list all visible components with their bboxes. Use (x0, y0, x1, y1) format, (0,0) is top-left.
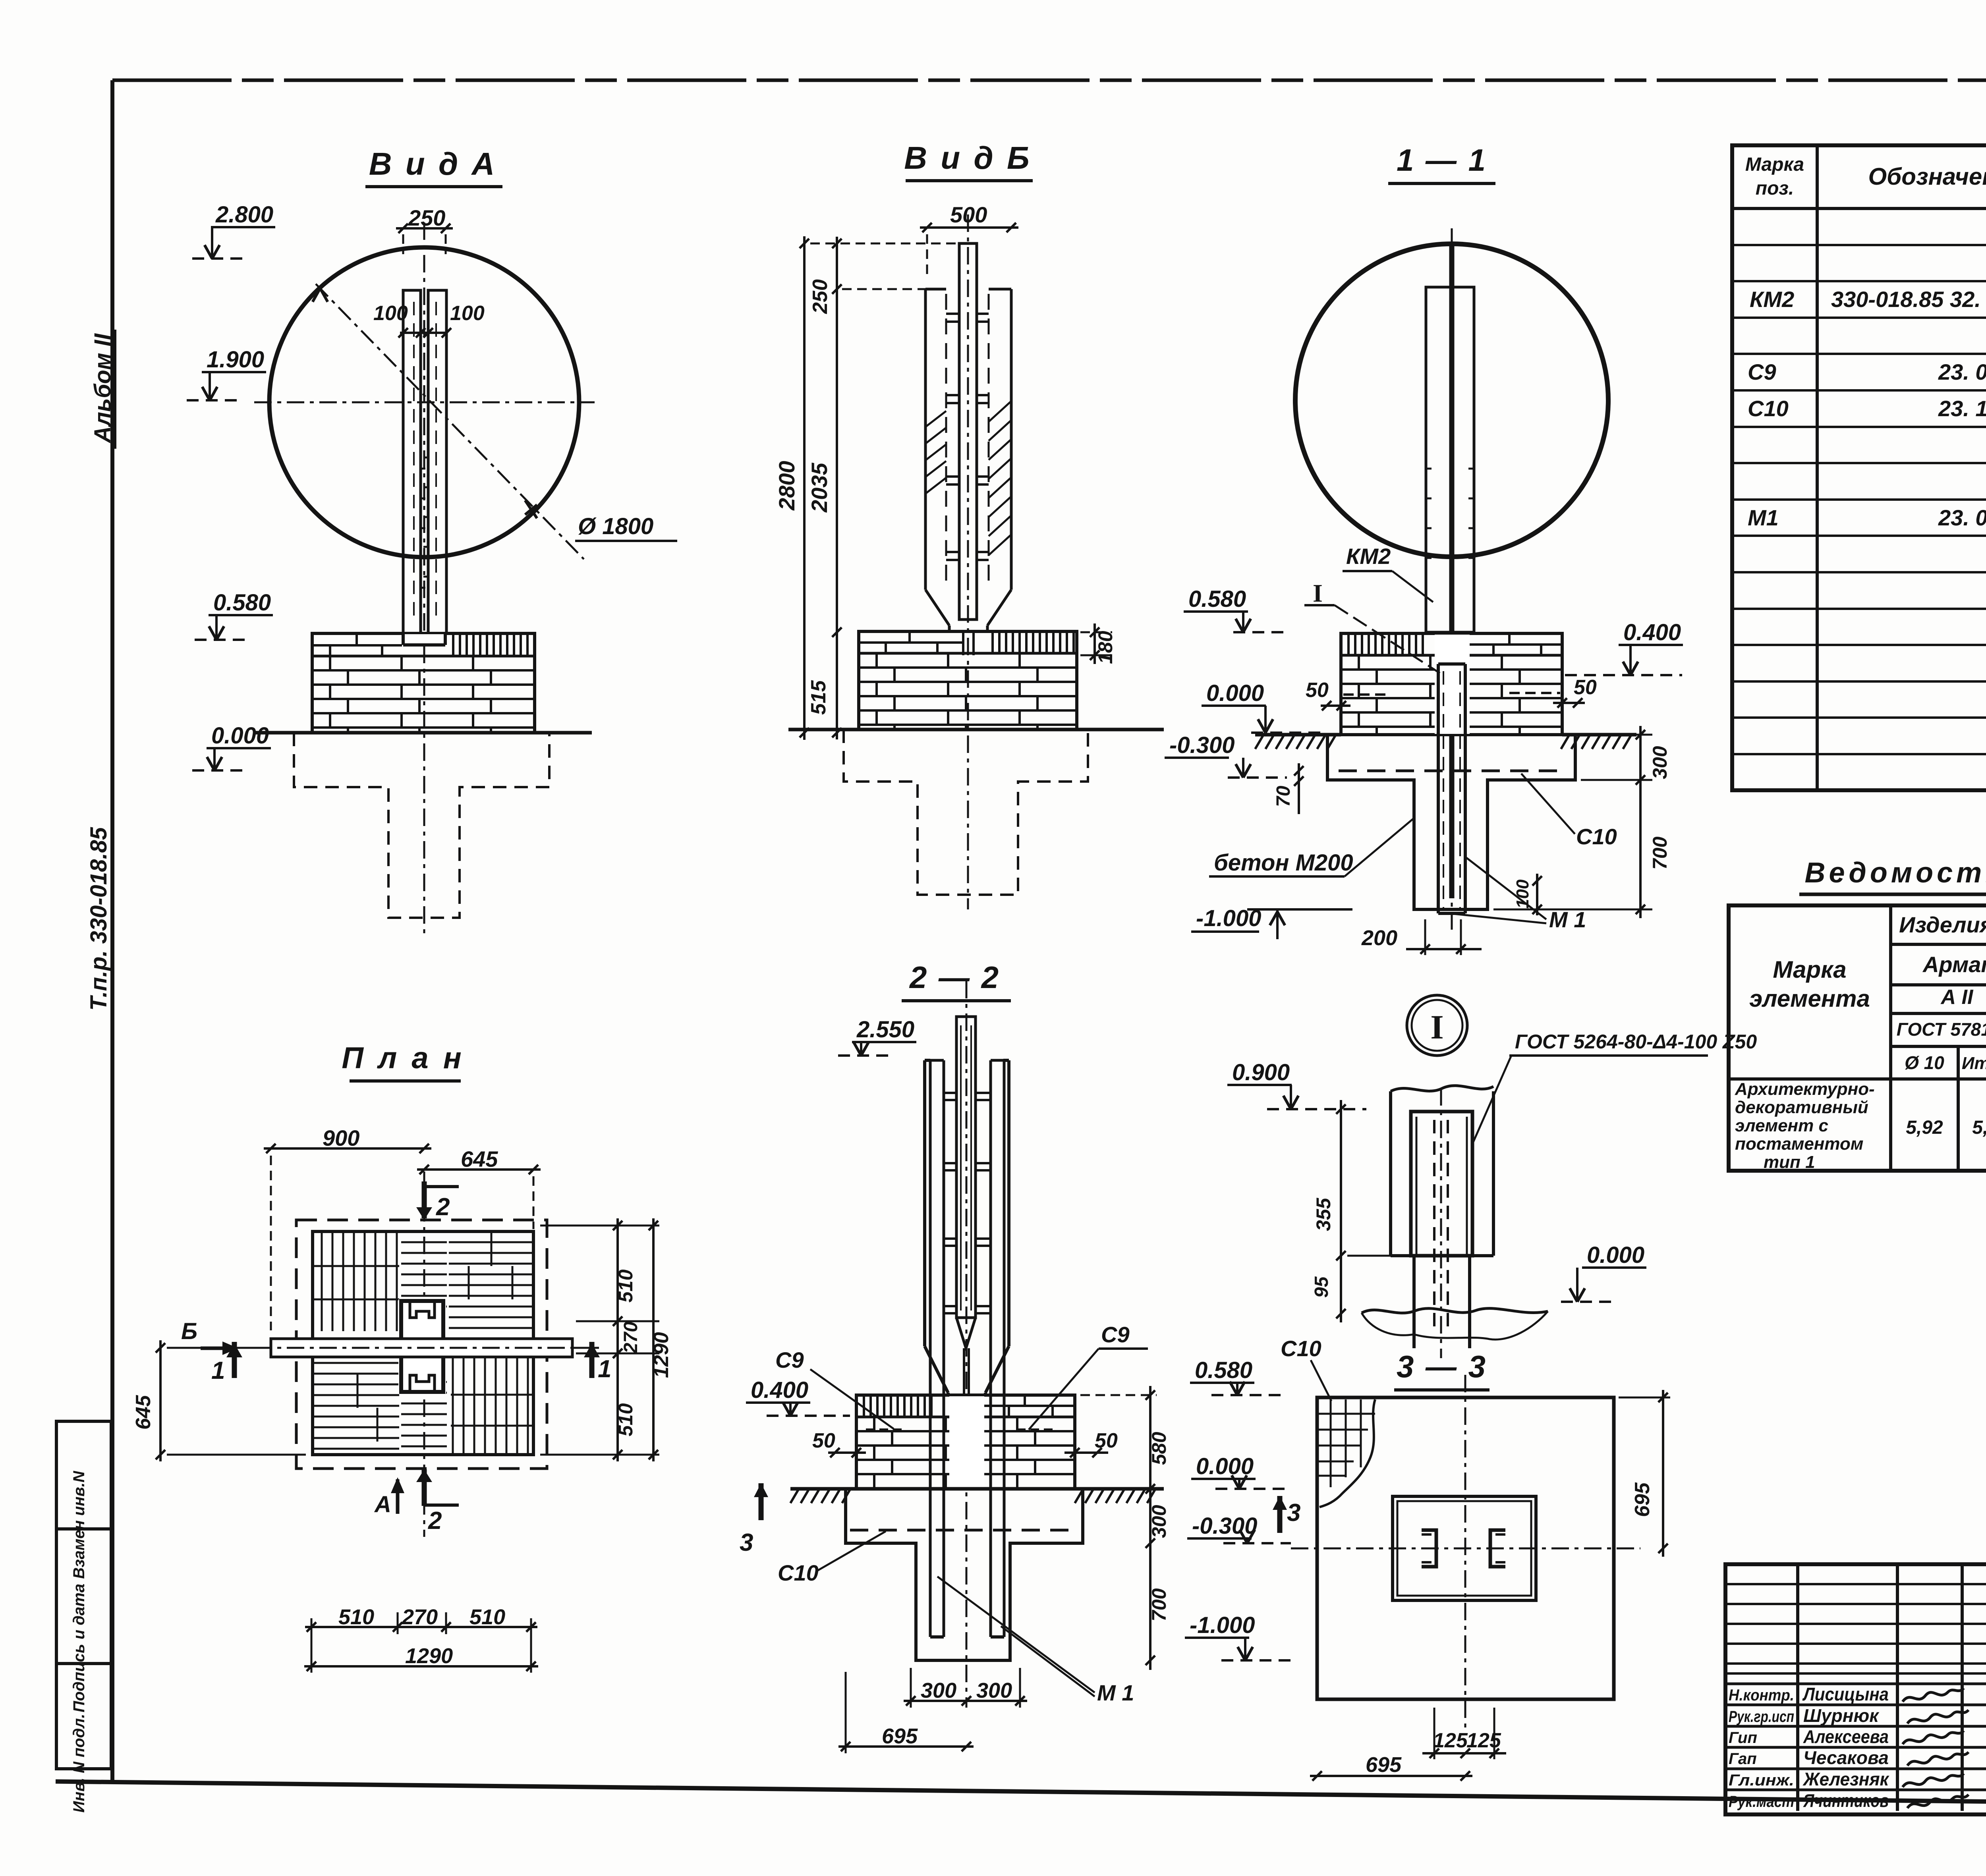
section 2-2 pedestal brickwork (856, 1395, 1075, 1489)
svg-text:580: 580 (1148, 1432, 1170, 1465)
view B pedestal brickwork (859, 631, 1077, 730)
node I ground break band (1362, 1309, 1548, 1340)
svg-text:50: 50 (1306, 679, 1329, 702)
svg-text:элемент с: элемент с (1735, 1116, 1828, 1135)
svg-text:645: 645 (132, 1395, 155, 1430)
svg-text:250: 250 (809, 279, 832, 314)
specification table grid (1732, 145, 1986, 790)
view B ground line (788, 728, 1164, 731)
svg-text:Итого: Итого (1962, 1054, 1986, 1073)
svg-text:П л а н: П л а н (342, 1041, 464, 1075)
steel table data row (1735, 1079, 1986, 1172)
plan brick hatch quadrants (314, 1233, 532, 1453)
section 2-2 section mark 3 right (1273, 1496, 1300, 1533)
svg-text:С9: С9 (775, 1347, 804, 1372)
svg-text:В и д А: В и д А (369, 146, 497, 181)
section 2-2 level 2.550 (838, 1017, 916, 1056)
svg-text:300: 300 (921, 1679, 956, 1702)
section 1-1 ground with hatch (1255, 735, 1636, 749)
left margin stamp boxes (56, 1421, 111, 1812)
spec row KM2 karkas (1750, 287, 1986, 312)
plan title (342, 1041, 464, 1081)
svg-text:2.550: 2.550 (856, 1017, 914, 1042)
svg-text:Б: Б (181, 1318, 197, 1344)
svg-text:декоративный: декоративный (1735, 1098, 1868, 1117)
svg-text:Архитектурно-: Архитектурно- (1735, 1079, 1875, 1099)
svg-text:бетон М200: бетон М200 (1214, 850, 1353, 876)
section 3-3 foundation square (1317, 1397, 1614, 1699)
svg-text:Чесакова: Чесакова (1803, 1747, 1889, 1768)
section 2-2 dim 695 (838, 1672, 974, 1753)
svg-text:695: 695 (1366, 1753, 1402, 1777)
section 3-3 inner plate double rect (1393, 1496, 1536, 1600)
section 1-1 dim 200 bottom (1361, 919, 1482, 955)
plan section mark 1 left (211, 1342, 242, 1384)
svg-text:0.000: 0.000 (1206, 680, 1264, 706)
section 2-2 level 0.400 left (746, 1377, 850, 1416)
plan bottom dims 510 270 510 1290 (304, 1605, 538, 1673)
svg-text:0.580: 0.580 (213, 590, 271, 616)
svg-text:Гип: Гип (1729, 1729, 1757, 1747)
view A diameter label 1800 (575, 513, 677, 541)
svg-text:Шурнюк: Шурнюк (1803, 1705, 1880, 1726)
plan view mark B arrow (181, 1318, 238, 1355)
spec row M1 shveller (1748, 505, 1986, 572)
section 2-2 level -1.000 right (1185, 1612, 1291, 1660)
svg-text:355: 355 (1312, 1197, 1335, 1231)
svg-text:I: I (1313, 579, 1323, 607)
section 2-2 level -0.300 right (1187, 1513, 1291, 1543)
steel table headers (1749, 912, 1986, 1073)
section 3-3 channel symbols (1422, 1530, 1505, 1567)
svg-text:Ø 10: Ø 10 (1905, 1052, 1944, 1073)
svg-text:Марка: Марка (1773, 956, 1846, 983)
section 2-2 rungs (944, 1093, 991, 1313)
spec row C10 ta zhe (1748, 396, 1986, 421)
section 3-3 bottom dim 695 (1310, 1753, 1472, 1781)
plan view mark A arrow (374, 1477, 404, 1517)
svg-text:695: 695 (882, 1724, 918, 1748)
svg-text:0.000: 0.000 (1587, 1242, 1644, 1268)
view A diameter leader line (313, 284, 584, 559)
svg-text:1290: 1290 (650, 1332, 673, 1378)
svg-text:2 — 2: 2 — 2 (909, 960, 1000, 995)
view A vertical centerline (423, 222, 425, 933)
svg-text:0.900: 0.900 (1232, 1060, 1290, 1085)
svg-text:I: I (1430, 1008, 1443, 1046)
svg-text:С9: С9 (1748, 359, 1776, 384)
view B dim 500 top (920, 202, 1018, 278)
svg-text:0.580: 0.580 (1188, 586, 1246, 612)
svg-text:Гл.инж.: Гл.инж. (1729, 1772, 1794, 1789)
node I weld label GOST (1472, 1031, 1757, 1146)
steel table grid (1729, 905, 1986, 1171)
node I post outline with breaks (1391, 1086, 1493, 1256)
section 2-2 bottom dims 300 300 (904, 1668, 1027, 1708)
section 1-1 dims 50 50 (1306, 676, 1597, 710)
svg-text:элемента: элемента (1749, 985, 1870, 1012)
section 3-3 title (1394, 1349, 1489, 1390)
svg-text:2035: 2035 (807, 463, 832, 513)
svg-text:С10: С10 (1748, 396, 1789, 421)
section 2-2 label M1 (937, 1577, 1134, 1705)
plan center post square (398, 1299, 446, 1393)
svg-text:5,92: 5,92 (1906, 1117, 1943, 1138)
node I channel (1411, 1088, 1472, 1358)
svg-text:0.000: 0.000 (211, 723, 269, 749)
node I level 0.000 (1561, 1242, 1646, 1302)
svg-text:515: 515 (807, 680, 830, 715)
svg-text:0.400: 0.400 (751, 1377, 808, 1403)
svg-text:КМ2: КМ2 (1346, 544, 1391, 569)
svg-text:0.400: 0.400 (1623, 620, 1681, 645)
svg-text:Рук.маст: Рук.маст (1729, 1793, 1794, 1810)
view A level 0.000 (192, 723, 271, 770)
svg-text:125: 125 (1433, 1729, 1468, 1752)
section 2-2 ground line with hatch (790, 1489, 1164, 1503)
specification table headers (1745, 154, 1986, 199)
svg-text:ГОСТ 5264-80-Δ4-100 Z50: ГОСТ 5264-80-Δ4-100 Z50 (1515, 1031, 1757, 1053)
svg-text:500: 500 (950, 202, 987, 227)
view B vertical centerline (967, 214, 969, 909)
svg-text:Арматура класса: Арматура класса (1922, 952, 1986, 977)
view B left dim lines 2800 2035 250 515 (774, 236, 959, 740)
svg-text:постаментом: постаментом (1735, 1134, 1863, 1154)
section 2-2 level 0.000 right (1191, 1453, 1287, 1489)
plan section mark 2 top (416, 1181, 459, 1221)
section 3-3 bottom dims 125 125 (1422, 1708, 1506, 1759)
section 2-2 level 0.580 right (1190, 1357, 1283, 1395)
section 1-1 level 0.000 (1202, 680, 1327, 733)
section 2-2 center post (956, 1017, 976, 1438)
plan dim 900 (264, 1125, 431, 1330)
svg-text:В и д Б: В и д Б (904, 140, 1032, 176)
svg-text:2.800: 2.800 (215, 202, 273, 228)
svg-text:330-018.85 32. 00. 00: 330-018.85 32. 00. 00 (1831, 287, 1986, 312)
section 1-1 label beton M200 (1209, 818, 1414, 876)
svg-text:510: 510 (614, 1403, 637, 1436)
section 1-1 channel M1 embedded (1438, 664, 1465, 913)
view B title (904, 140, 1033, 181)
svg-text:Н.контр.: Н.контр. (1729, 1687, 1794, 1704)
svg-text:100: 100 (450, 302, 485, 325)
svg-text:50: 50 (1095, 1429, 1118, 1452)
section 2-2 centerline (966, 981, 968, 1708)
node I circle marker (1407, 995, 1467, 1056)
svg-text:2800: 2800 (774, 461, 799, 511)
svg-text:300: 300 (976, 1679, 1012, 1702)
section 3-3 centerlines (1291, 1375, 1640, 1727)
svg-text:23. 00. 02: 23. 00. 02 (1938, 505, 1986, 530)
svg-text:ГОСТ 5781-82: ГОСТ 5781-82 (1897, 1019, 1986, 1040)
svg-text:-0.300: -0.300 (1169, 732, 1234, 758)
section 1-1 dim 100 pier (1513, 874, 1542, 915)
svg-text:180: 180 (1094, 631, 1117, 664)
svg-text:270: 270 (620, 1322, 641, 1354)
plan section mark 1 right (584, 1342, 611, 1383)
svg-text:С10: С10 (1281, 1336, 1321, 1361)
section 2-2 label C9 left (775, 1347, 894, 1429)
svg-text:А: А (374, 1492, 391, 1517)
section 2-2 right dim line 580 300 700 (1080, 1386, 1170, 1670)
svg-text:3 — 3: 3 — 3 (1397, 1349, 1487, 1384)
section 3-3 label C10 (1281, 1336, 1331, 1401)
svg-text:Марка: Марка (1745, 154, 1804, 175)
svg-text:Гап: Гап (1729, 1750, 1757, 1768)
view B foundation dashed outline (844, 730, 1088, 895)
section 2-2 mesh dashes in masonry (866, 1428, 1057, 1431)
section 2-2 label C9 right (1029, 1322, 1148, 1430)
plan right dims 510 270 510 1290 (540, 1218, 673, 1461)
svg-text:М 1: М 1 (1549, 907, 1586, 932)
plan left dim 645 (132, 1340, 306, 1461)
svg-text:С10: С10 (1576, 824, 1617, 849)
section 1-1 title (1388, 143, 1495, 183)
section 1-1 pedestal brickwork (1341, 633, 1562, 735)
svg-text:23. 09. 00: 23. 09. 00 (1938, 359, 1986, 384)
plan dim 645 top (417, 1146, 541, 1229)
svg-text:Рук.гр.исп: Рук.гр.исп (1729, 1708, 1794, 1725)
section 1-1 level -1.000 (1191, 905, 1352, 939)
svg-text:1: 1 (598, 1355, 611, 1383)
section 1-1 post outline (1426, 287, 1474, 632)
svg-text:0.580: 0.580 (1195, 1357, 1252, 1383)
svg-text:Алексеева: Алексеева (1803, 1726, 1889, 1747)
view B ladder rungs (946, 314, 989, 560)
node I left dims 355 95 (1311, 1100, 1408, 1322)
svg-text:Лисицына: Лисицына (1802, 1684, 1889, 1704)
svg-text:Т.п.р. 330-018.85: Т.п.р. 330-018.85 (86, 827, 112, 1011)
svg-text:300: 300 (1649, 746, 1671, 779)
section 2-2 title (902, 960, 1011, 1001)
svg-text:Инв. N подл.: Инв. N подл. (70, 1714, 88, 1813)
section 2-2 outer profile (925, 1060, 1009, 1396)
view B fin hatching (925, 401, 1011, 555)
section 1-1 steel frame KM2 heavy bar (1449, 245, 1455, 898)
svg-text:3: 3 (1287, 1499, 1300, 1527)
section 1-1 dim 70 (1273, 763, 1304, 814)
svg-text:тип 1: тип 1 (1764, 1152, 1815, 1172)
svg-text:700: 700 (1649, 836, 1671, 870)
svg-text:50: 50 (812, 1429, 835, 1452)
section 2-2 section mark 3 left (740, 1483, 768, 1556)
svg-text:70: 70 (1273, 786, 1294, 807)
svg-text:270: 270 (402, 1605, 438, 1629)
svg-text:125: 125 (1466, 1729, 1501, 1752)
svg-text:510: 510 (614, 1269, 637, 1303)
svg-text:3: 3 (740, 1529, 753, 1556)
svg-text:510: 510 (469, 1605, 505, 1629)
svg-text:200: 200 (1361, 926, 1397, 950)
svg-text:900: 900 (323, 1125, 359, 1150)
svg-text:5,92: 5,92 (1972, 1117, 1986, 1138)
section 2-2 label C10 (778, 1531, 886, 1585)
svg-text:М1: М1 (1748, 505, 1779, 530)
section 1-1 circle (1295, 244, 1608, 557)
view A pedestal brickwork (312, 633, 535, 733)
svg-text:1: 1 (211, 1357, 225, 1384)
svg-text:700: 700 (1148, 1588, 1170, 1621)
section 1-1 level 0.580 (1184, 586, 1289, 632)
svg-text:250: 250 (408, 205, 445, 230)
spec row C9 setka (1748, 359, 1986, 384)
svg-text:поз.: поз. (1756, 178, 1794, 199)
view A dims 100 100 (373, 302, 485, 338)
svg-text:Взамен инв.N: Взамен инв.N (70, 1471, 88, 1579)
view A circle (disc d1800) (269, 247, 579, 557)
svg-text:А II: А II (1940, 986, 1974, 1009)
section 1-1 right dims 300 700 (1493, 726, 1671, 918)
svg-text:Подпись и дата: Подпись и дата (70, 1584, 88, 1712)
section 1-1 label KM2 (1343, 544, 1433, 602)
svg-text:С10: С10 (778, 1560, 819, 1585)
view A level 0.580 (195, 590, 273, 640)
svg-text:Ячинтиков: Ячинтиков (1803, 1790, 1889, 1811)
svg-text:С9: С9 (1101, 1322, 1130, 1347)
svg-text:Железняк: Железняк (1802, 1769, 1889, 1789)
svg-text:1.900: 1.900 (207, 347, 264, 372)
view A title (365, 146, 502, 187)
svg-text:1290: 1290 (405, 1644, 453, 1668)
svg-text:КМ2: КМ2 (1750, 287, 1794, 312)
svg-text:М 1: М 1 (1097, 1680, 1134, 1705)
svg-text:0.000: 0.000 (1196, 1453, 1254, 1479)
svg-text:100: 100 (373, 302, 408, 325)
view B side fins (925, 289, 1011, 655)
view B dim 180 (1080, 623, 1117, 664)
section 1-1 node I mark (1304, 579, 1440, 673)
section 1-1 label M1 (1449, 858, 1586, 932)
section 1-1 level 0.400 right (1565, 620, 1683, 675)
section 2-2 dims 50 50 (812, 1429, 1118, 1457)
svg-text:Ведомость расхода стали на: Ведомость расхода стали на элемент , кг (1804, 857, 1986, 889)
plan section mark 2 bottom (416, 1469, 459, 1534)
svg-text:2: 2 (428, 1507, 442, 1534)
section 1-1 vertical centerline (1451, 228, 1453, 933)
section 1-1 level -0.300 (1165, 732, 1287, 778)
svg-text:-1.000: -1.000 (1190, 1612, 1255, 1638)
svg-text:Изделия арматурные: Изделия арматурные (1899, 912, 1986, 937)
section 2-2 channels M1 (930, 1060, 1004, 1637)
view A ground line (254, 731, 592, 735)
svg-text:50: 50 (1574, 676, 1597, 699)
steel consumption table title (1799, 857, 1986, 894)
svg-text:695: 695 (1631, 1482, 1654, 1517)
svg-text:100: 100 (1513, 879, 1532, 909)
section 1-1 label C10 (1521, 774, 1617, 849)
plan pedestal square (313, 1231, 533, 1455)
left margin vertical captions (86, 330, 116, 1013)
section 2-2 foundation outline (846, 1489, 1083, 1660)
svg-text:300: 300 (1148, 1505, 1170, 1538)
svg-text:-0.300: -0.300 (1192, 1513, 1257, 1539)
svg-text:510: 510 (338, 1605, 374, 1629)
section 3-3 right dim 695 (1619, 1390, 1670, 1557)
view A dim 250 top (396, 205, 453, 254)
view A level 1.900 (187, 347, 266, 400)
svg-text:23. 10. 00: 23. 10. 00 (1938, 396, 1986, 421)
svg-text:95: 95 (1311, 1276, 1332, 1298)
view A level 2.800 (192, 202, 275, 259)
node I level 0.900 (1227, 1060, 1366, 1109)
svg-text:2: 2 (436, 1193, 450, 1221)
svg-text:1 — 1: 1 — 1 (1397, 143, 1487, 178)
plan centerlines (246, 1172, 600, 1537)
svg-text:Альбом II: Альбом II (90, 333, 116, 444)
title block signatures names (1729, 1684, 1969, 1811)
section 1-1 foundation outline (1327, 735, 1575, 909)
svg-text:Ø 1800: Ø 1800 (578, 513, 653, 539)
view A posts (two 100 bars) (403, 290, 446, 633)
plan channel bar (254, 1338, 596, 1358)
view B center post (959, 243, 977, 620)
svg-text:645: 645 (461, 1146, 498, 1172)
svg-text:Обозначение: Обозначение (1868, 163, 1986, 190)
view A foundation dashed outline (294, 733, 549, 918)
plan dashed foundation square (296, 1220, 547, 1469)
section 3-3 C10 mesh corner (1319, 1399, 1375, 1507)
view A horizontal centerline (254, 401, 595, 403)
title block left stamp grid (1725, 1564, 1986, 1814)
